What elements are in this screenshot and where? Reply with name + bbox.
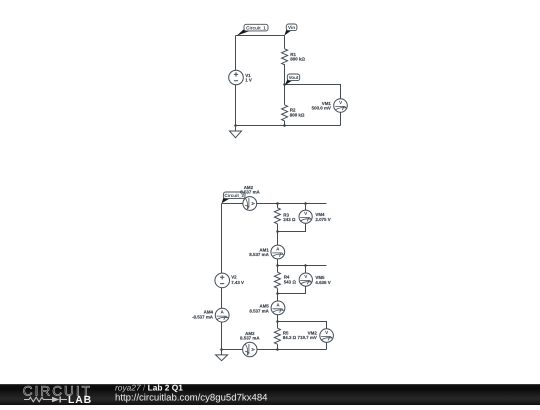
- wire VM1 to bottom rail: [340, 112, 342, 125]
- ammeter AM1: [271, 245, 285, 259]
- node junction ground (bottom circuit): [220, 348, 223, 351]
- wire VM4 bottom L to R3 bottom: [278, 224, 306, 232]
- node junction R3-top: [276, 202, 279, 205]
- voltmeter VM2: [320, 329, 334, 343]
- node junction R2-bottom: [283, 124, 286, 127]
- wire AM5 to rail3: [277, 315, 279, 322]
- wire VM4 top stub: [305, 204, 307, 211]
- node junction R5-top: [276, 320, 279, 323]
- wire Vout to VM1: [285, 85, 341, 99]
- svg-text:V2: V2: [231, 275, 237, 280]
- node junction R4-top: [276, 264, 279, 267]
- ground (bottom circuit): [216, 350, 228, 361]
- resistor R1: [282, 49, 288, 65]
- node junction R4-bottom: [276, 292, 279, 295]
- wire junction to AM5: [277, 294, 279, 301]
- wire rail2 to R4: [277, 266, 279, 273]
- wire left branch (to V2): [221, 204, 223, 274]
- svg-text:8.537 mA: 8.537 mA: [249, 308, 269, 313]
- svg-text:Vout: Vout: [289, 75, 299, 80]
- node Vout junction: [283, 83, 286, 86]
- wire Vin down to R1: [284, 36, 286, 49]
- logo diode glyph: [52, 397, 60, 403]
- svg-text:1 V: 1 V: [245, 78, 252, 83]
- svg-text:4.636 V: 4.636 V: [315, 280, 330, 285]
- wire AM4 to bottom rail: [221, 322, 223, 349]
- node junction VM4-top: [304, 202, 307, 205]
- svg-text:-8.537 mA: -8.537 mA: [192, 315, 214, 320]
- svg-text:http://circuitlab.com/cy8gu5d7: http://circuitlab.com/cy8gu5d7kx484: [115, 392, 268, 403]
- wire bottom rail left part: [222, 349, 243, 351]
- wire top rail (Circuit_1 / Vin): [236, 35, 285, 37]
- voltmeter VM4: [299, 210, 312, 223]
- wire R1 to R2 (through Vout): [284, 64, 286, 105]
- svg-text:Circuit_1: Circuit_1: [246, 25, 266, 30]
- svg-text:243 Ω: 243 Ω: [283, 217, 296, 222]
- wire rail2: [278, 265, 327, 267]
- wire R2 to bottom rail: [284, 121, 286, 126]
- svg-text:500.0 mV: 500.0 mV: [312, 105, 331, 110]
- wire VM2 to bottom rail: [326, 342, 328, 349]
- voltmeter VM5: [299, 273, 312, 286]
- ammeter AM5: [271, 301, 285, 315]
- svg-text:800 kΩ: 800 kΩ: [290, 113, 305, 118]
- footer bar: [0, 384, 540, 405]
- wire AM1 to rail2: [277, 259, 279, 266]
- wire V1 to bottom rail: [235, 85, 237, 126]
- svg-text:8.537 mA: 8.537 mA: [240, 190, 260, 195]
- ground (top circuit): [230, 126, 242, 138]
- wire rail1 to R3: [277, 204, 279, 208]
- wire rail3 to VM2: [278, 322, 327, 329]
- wire bottom rail right part: [257, 349, 327, 351]
- ammeter AM2: [243, 197, 257, 211]
- resistor R3: [274, 208, 280, 224]
- wire bottom rail (top circuit): [236, 125, 341, 127]
- wire corner to AM2: [222, 203, 243, 205]
- svg-text:543 Ω: 543 Ω: [284, 280, 297, 285]
- node flag Vin: [284, 24, 297, 36]
- resistor R5: [274, 328, 280, 344]
- node junction VM5-top: [304, 264, 307, 267]
- node junction R3-bottom: [276, 230, 279, 233]
- node junction R5-bottom: [276, 348, 279, 351]
- resistor R2: [282, 105, 288, 121]
- voltmeter VM1: [334, 99, 348, 113]
- svg-text:8.537 mA: 8.537 mA: [240, 336, 260, 341]
- node flag Vout: [285, 74, 300, 85]
- ammeter AM4: [215, 308, 229, 322]
- svg-text:84.3 Ω: 84.3 Ω: [283, 335, 297, 340]
- svg-text:8.537 mA: 8.537 mA: [249, 252, 269, 257]
- node junction bottom-left: [234, 124, 237, 127]
- svg-text:2.075 V: 2.075 V: [315, 217, 330, 222]
- node flag Circuit_2: [222, 192, 245, 203]
- wire rail3 to R5: [277, 322, 279, 329]
- wire left branch top (to V1): [235, 36, 237, 71]
- wire V2 to AM4: [221, 288, 223, 309]
- node flag Circuit_1: [237, 24, 268, 35]
- svg-text:7.43 V: 7.43 V: [231, 280, 244, 285]
- ammeter AM3: [243, 342, 257, 356]
- svg-text:Vin: Vin: [288, 25, 295, 30]
- wire VM5 bottom L to R4 bottom: [278, 287, 306, 294]
- svg-text:719.7 mV: 719.7 mV: [298, 335, 317, 340]
- wire R5 to bottom rail: [277, 344, 279, 349]
- wire VM5 top stub: [305, 266, 307, 273]
- resistor R4: [274, 272, 280, 288]
- wire R3 to AM1: [277, 224, 279, 245]
- svg-text:800 kΩ: 800 kΩ: [290, 57, 305, 62]
- voltage source V2: [215, 273, 230, 288]
- logo resistor glyph: [24, 397, 47, 402]
- wire R4 to junction: [277, 288, 279, 293]
- wire top rail (bottom circuit): [257, 203, 327, 205]
- svg-text:LAB: LAB: [68, 395, 92, 405]
- voltage source V1: [229, 70, 244, 85]
